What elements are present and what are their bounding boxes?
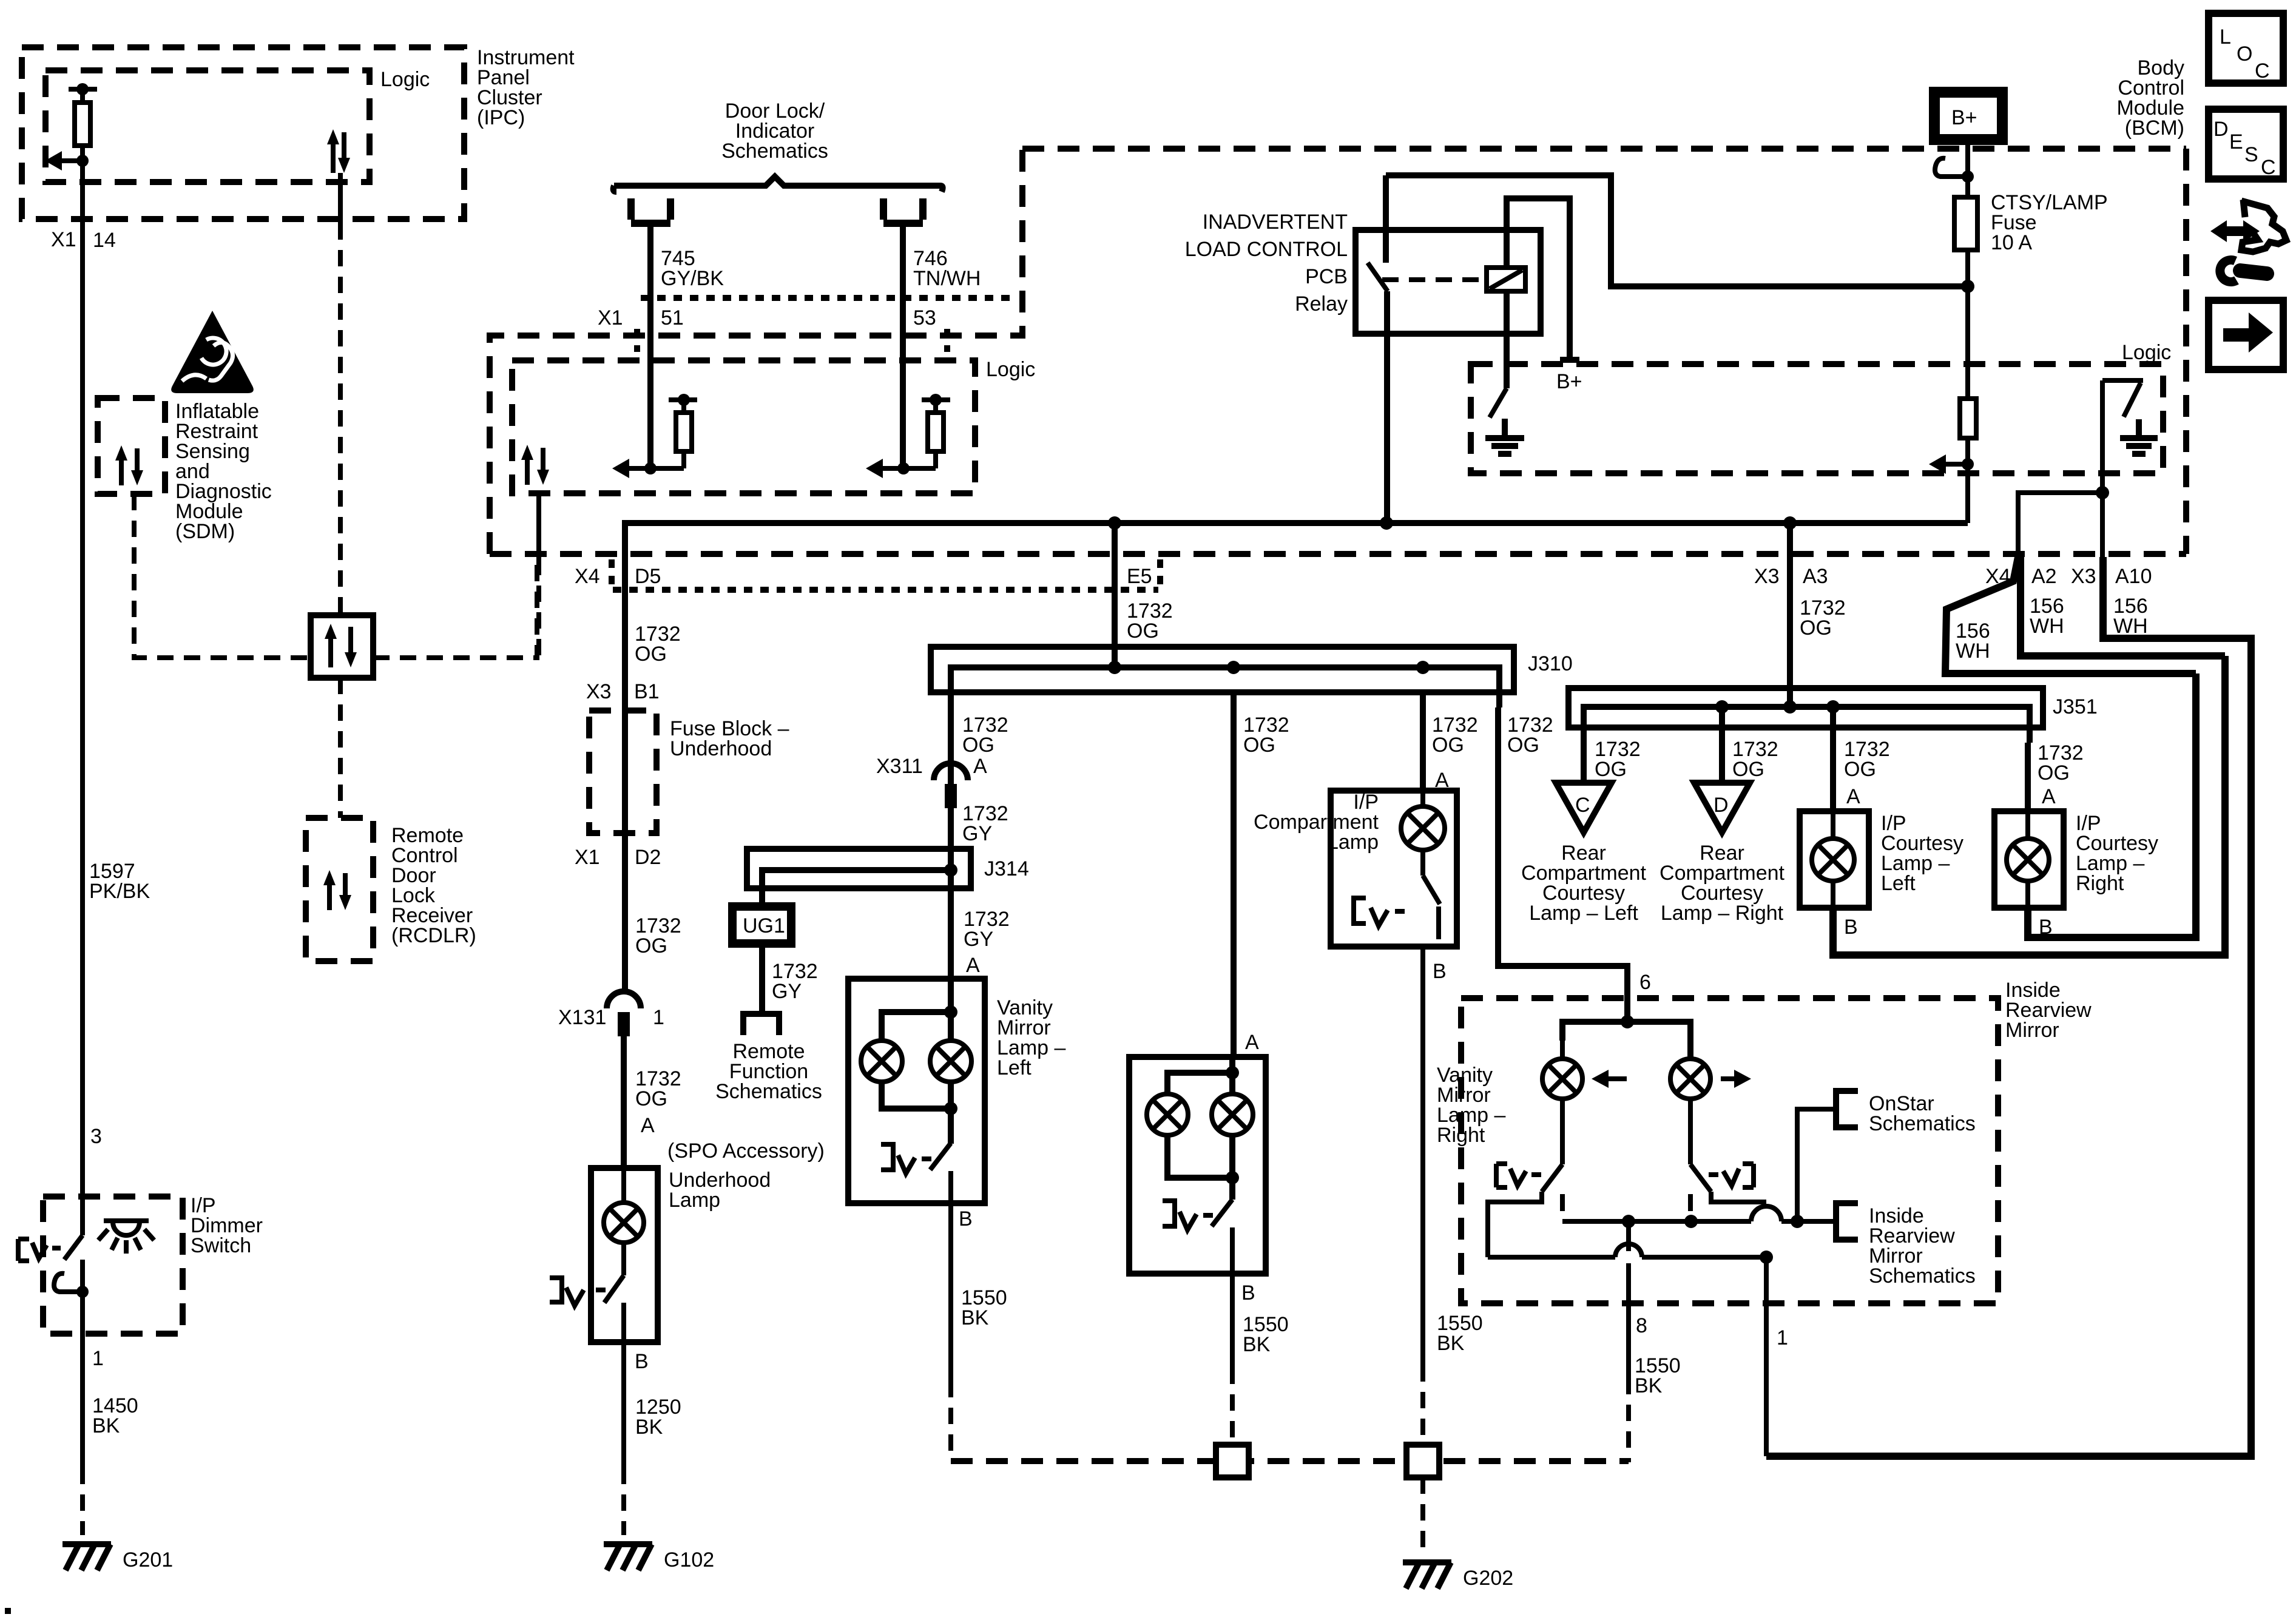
dimmer lamp glyph [98,1221,154,1254]
svg-text:X1: X1 [598,306,623,329]
wire courtesy right B to 156 riser [2028,673,2196,937]
svg-text:X4: X4 [575,565,600,588]
svg-text:(RCDLR): (RCDLR) [391,924,476,947]
wire 1250 BK [621,1342,626,1468]
svg-text:B+: B+ [1951,106,1977,129]
svg-text:B: B [959,1207,973,1230]
wire 156 WH from A2 pin straight [2021,557,2225,656]
connector terminal 746 [883,198,923,223]
wire gateway down to RCDLR dashed [338,678,343,818]
wire to OnStar fork [1797,1109,1836,1221]
off-page fork OnStar [1836,1091,1858,1127]
dimmer clip node [54,1260,89,1334]
svg-text:OG: OG [1732,758,1764,781]
svg-text:J314: J314 [984,857,1029,880]
svg-text:Schematics: Schematics [1869,1112,1976,1135]
junction dot J351 left drop [1715,700,1729,714]
wire J310 drop to IP compartment lamp [1420,692,1426,791]
underhood lamp switch [550,1168,624,1342]
wire 1450 BK dashed to ground [80,1468,85,1535]
vanity left bottom node [882,1082,957,1144]
svg-text:WH: WH [2113,615,2148,638]
svg-text:OG: OG [1127,619,1159,643]
wire A3 drop to J351 [1787,523,1793,707]
IPC Logic inner dashed box [46,70,370,182]
IP courtesy lamp right bulb [2007,811,2049,908]
vanity right internal top node [1167,1057,1239,1094]
svg-text:B: B [635,1350,649,1373]
wire 156 WH from A10 pin [1766,557,2251,1456]
vanity mirror left box [848,979,985,1203]
svg-text:OG: OG [1800,616,1832,640]
svg-text:Logic: Logic [2122,341,2171,364]
wire door lock logic to module row [536,493,541,559]
underhood lamp box [591,1168,658,1342]
svg-text:B: B [1844,916,1858,939]
B+ pin tick [1560,357,1579,363]
vanity left internal top node [882,979,957,1041]
svg-text:D: D [1714,794,1729,817]
pin tick X4/D5 [609,559,615,585]
wire 746 TN/WH [900,223,906,468]
svg-text:Right: Right [2076,872,2124,895]
ground G202 [1403,1562,1451,1588]
vanity right bottom node [1167,1135,1239,1200]
svg-text:A: A [2042,785,2056,808]
svg-text:D: D [2213,118,2229,141]
icon arrow box [2209,300,2283,370]
svg-text:WH: WH [1956,640,1990,663]
wire courtesy left B to 156 riser [1833,656,2225,955]
svg-text:B: B [1433,960,1447,983]
wire 156 WH jog from X4 A2 pin [1945,557,2196,673]
wire vanity left 1550 BK [948,1203,953,1381]
door lock / BCM combined module dashed outline [490,149,1022,554]
svg-text:(SPO Accessory): (SPO Accessory) [667,1139,825,1163]
svg-text:Logic: Logic [986,358,1035,381]
IP courtesy lamp right box [1994,811,2064,908]
svg-text:X131: X131 [558,1006,606,1029]
svg-text:(IPC): (IPC) [477,106,525,129]
svg-text:E5: E5 [1127,565,1152,588]
svg-text:UG1: UG1 [743,914,785,937]
splice square (vanity right) [1216,1445,1249,1477]
svg-text:INADVERTENT: INADVERTENT [1203,211,1348,234]
wire J310 drop to X311 [948,692,954,991]
svg-text:B+: B+ [1556,370,1582,393]
svg-text:Lamp – Right: Lamp – Right [1661,902,1784,925]
svg-text:A: A [973,755,987,778]
clip symbol at B+ wire [1935,158,1974,183]
junction dot J351 A3 feed [1783,700,1797,714]
dimmer switch blade [18,1197,83,1261]
wire B+ to fuse [1965,140,1970,197]
svg-text:Lamp: Lamp [1327,831,1379,854]
wire square to G202 ground [1420,1477,1425,1553]
svg-text:GY: GY [964,928,993,951]
Inside Rearview Mirror dashed box [1461,998,1998,1303]
wire 1597 PK/BK down to dimmer [80,219,85,1197]
svg-text:Mirror: Mirror [2005,1019,2059,1042]
svg-text:C: C [2255,59,2270,83]
svg-text:B: B [1241,1281,1255,1305]
svg-text:51: 51 [661,306,684,329]
wire 745 GY/BK [647,223,653,468]
svg-text:53: 53 [913,306,936,329]
svg-text:WH: WH [2030,615,2064,638]
junction dot A3 feed [1783,516,1797,530]
svg-text:A: A [1245,1031,1259,1054]
Remote Control Door Lock Receiver (RCDLR) dashed box [306,818,373,961]
IP courtesy lamp left box [1800,811,1869,908]
splice square (compartment lamp) [1406,1445,1439,1477]
mirror lower ground bus [1488,1244,1773,1264]
svg-text:10 A: 10 A [1991,231,2032,254]
splice pack J314 outline [747,849,971,888]
Body Control Module (BCM) outer dashed box edges [1022,146,2186,152]
svg-text:1: 1 [1777,1326,1788,1349]
svg-text:OG: OG [1595,758,1627,781]
svg-text:S: S [2244,143,2258,166]
fuse UG1 box [732,906,791,944]
svg-text:OG: OG [1844,758,1876,781]
mirror internal bus to forks [1562,1206,1836,1228]
wire SDM serial data dashed [134,494,311,658]
svg-text:G202: G202 [1463,1567,1513,1590]
page period mark [5,1608,11,1614]
svg-text:Logic: Logic [380,68,430,91]
vanity left bulb 1 [861,1041,902,1082]
wire mirror pin 1 [1764,1257,1769,1456]
vanity mirror right box [1129,1057,1266,1274]
G202 dashed ground bus [951,1458,1629,1464]
svg-text:Lamp: Lamp [669,1189,720,1212]
svg-text:OG: OG [2038,761,2070,785]
wire relay common to fuse node [1386,175,1968,286]
svg-text:OG: OG [1507,734,1539,757]
wire J314 through to vanity left [948,870,954,979]
wire UG1 to remote function fork [759,944,765,1014]
wire BCM switch to A2/A10 node [2100,380,2105,557]
wire pin 8 dashed to G202 bus [1626,1378,1631,1462]
vanity right bulb 1 [1147,1094,1188,1135]
mirror map lamp left bulb [1542,1041,1582,1099]
inline connector X311 [934,763,968,808]
mirror right switch [1690,1099,1766,1211]
svg-text:BK: BK [1437,1332,1465,1355]
right arrow pointer [1721,1070,1751,1088]
module interface row long dashed line [490,551,2186,557]
svg-text:O: O [2237,42,2252,66]
wire relay coil to B+ pin [1507,198,1570,360]
svg-text:X1: X1 [575,846,600,869]
junction dot relay output [1380,516,1393,530]
wire vanity right dashed to G202 square [1230,1368,1235,1446]
svg-text:Schematics: Schematics [1869,1264,1976,1288]
icon LOC box [2209,13,2283,83]
svg-text:A: A [641,1114,655,1137]
svg-text:OG: OG [962,734,994,757]
I/P Dimmer Switch dashed box [43,1197,183,1334]
svg-text:Lamp – Left: Lamp – Left [1529,902,1638,925]
svg-text:J351: J351 [2053,695,2098,718]
svg-text:E: E [2229,130,2243,154]
wire relay coil low side to driver switch [1504,291,1510,388]
pull-up resistor (door lock left) [612,394,697,478]
wire vanity left dashed to G202 bus [948,1381,953,1461]
icon wrench [2220,260,2267,282]
svg-text:BK: BK [635,1416,663,1439]
relay coil [1487,268,1525,291]
junction dot E5 feed [1108,516,1121,530]
Instrument Panel Cluster (IPC) outer dashed box [22,47,464,219]
junction dot J314 [944,863,957,877]
wire J351 drop to triangle C [1581,727,1587,783]
svg-text:(BCM): (BCM) [2125,116,2184,140]
wire vanity right 1550 BK [1230,1274,1235,1368]
svg-text:BK: BK [1243,1333,1271,1356]
wire 1450 BK [80,1334,85,1468]
BCM Logic dashed box [1471,364,2163,473]
icon DESC box [2209,109,2283,179]
connector terminal 745 [631,198,670,223]
pin tick E5 [1157,559,1163,585]
mirror left switch [1488,1099,1562,1257]
splice pack J310 outline [931,647,1514,692]
connector X1 row dotted line [641,295,1010,301]
J314 internal bus with drop to UG1 [762,870,951,906]
wire 1250 BK dashed to ground [621,1468,626,1535]
brace over door lock wires [613,177,943,192]
wire X311 to J314 [948,808,954,869]
svg-text:A3: A3 [1803,565,1828,588]
BCM internal node with left arrow [1929,438,1974,474]
SDM serial data arrows [115,445,143,485]
wire fuse down through logic box [1965,250,1970,399]
main feed bus from D5 to BCM [625,523,1968,993]
resistor R-IPC pull-up [69,83,97,161]
door lock serial arrows [521,445,549,485]
IP compartment lamp switch [1354,850,1440,939]
wire J310 drop to vanity right [1231,692,1237,1057]
wire J351 drop to triangle D [1719,707,1725,783]
svg-text:14: 14 [93,229,116,252]
wire J351 drop to IP courtesy lamp left [1830,707,1836,811]
X1 row pin ticks [634,329,640,352]
svg-text:1: 1 [92,1347,104,1370]
underhood lamp bulb [604,1203,644,1243]
relay box [1356,230,1541,334]
svg-text:LOAD CONTROL: LOAD CONTROL [1185,238,1348,261]
svg-text:A: A [966,954,980,977]
J351 internal bus with end drops [1584,707,2030,743]
serial data gateway box [311,615,373,678]
svg-text:GY/BK: GY/BK [661,267,724,290]
relay driver switch to ground [1485,388,1524,454]
Fuse Block - Underhood dashed box [589,711,657,833]
module row dotted segment [613,587,1158,593]
svg-text:BK: BK [1635,1374,1663,1397]
wire node to A2 pin [2018,493,2102,557]
off-page fork Inside Rearview Mirror Schematics [1836,1203,1858,1240]
icon hand with double arrow [2210,200,2286,252]
wire compartment lamp 1550 BK [1420,947,1425,1365]
door lock Logic inner dashed box [512,360,975,493]
svg-text:A: A [1846,785,1860,808]
wire X131 to lamp [621,1036,627,1168]
IP compartment lamp bulb [1401,791,1445,850]
vanity left switch [881,1143,951,1203]
J310 internal bus with end drops [951,667,1499,707]
svg-text:C: C [2261,156,2276,179]
svg-text:TN/WH: TN/WH [913,267,981,290]
mirror feed node [1562,1015,1690,1059]
svg-text:B1: B1 [634,680,660,703]
svg-text:1: 1 [653,1006,664,1029]
wire E5 drop to J310 [1112,523,1118,667]
svg-text:Left: Left [997,1056,1032,1079]
svg-text:A10: A10 [2115,565,2152,588]
junction dot J310 drop compartment lamp [1416,661,1430,674]
pull-up resistor (door lock right) [866,394,950,478]
svg-text:C: C [1575,794,1590,817]
vanity left bulb 2 [930,1041,971,1082]
svg-text:X3: X3 [586,680,612,703]
wire BCM node to bus [1965,464,1970,523]
svg-text:OG: OG [635,934,667,957]
vanity right bulb 2 [1212,1094,1253,1135]
serial data up/down arrows (IPC) [327,129,350,173]
junction dot J310 feed [1108,661,1121,674]
airbag caution triangle [171,311,254,393]
svg-text:Relay: Relay [1295,292,1348,316]
svg-text:8: 8 [1636,1314,1647,1337]
svg-text:D2: D2 [635,846,661,869]
left arrow pointer [1592,1070,1627,1088]
off-page triangle C [1556,783,1612,832]
svg-text:A2: A2 [2031,565,2057,588]
wire 1597 inside IPC down [80,161,85,219]
svg-text:3: 3 [90,1125,102,1148]
off-page triangle D [1694,783,1750,832]
vanity right switch [1163,1200,1232,1274]
gateway box arrows [325,624,357,667]
svg-text:X3: X3 [2071,565,2096,588]
svg-text:X3: X3 [1754,565,1780,588]
svg-text:BK: BK [961,1306,989,1329]
svg-text:L: L [2220,25,2231,49]
RCDLR serial data arrows [323,870,351,910]
svg-text:D5: D5 [635,565,661,588]
wire compartment lamp dashed to square [1420,1365,1425,1446]
wire serial data dashed IPC to gateway box [338,223,343,615]
svg-text:(SDM): (SDM) [175,520,235,543]
svg-text:PK/BK: PK/BK [89,880,150,903]
junction dot J351 courtesy left drop [1826,700,1840,714]
junction dot fuse-relay [1961,280,1974,293]
svg-text:Schematics: Schematics [721,140,828,163]
BCM internal resistor [1960,399,1976,438]
ground G201 [62,1544,111,1570]
svg-text:Left: Left [1881,872,1916,895]
svg-text:X1: X1 [51,228,76,251]
svg-text:Switch: Switch [191,1234,251,1257]
wire gateway to door lock module dashed [373,554,537,658]
ground G102 [604,1544,652,1570]
svg-text:BK: BK [92,1414,120,1437]
svg-text:Underhood: Underhood [670,737,772,760]
relay actuation dashed link [1382,277,1484,282]
splice pack J351 outline [1568,688,2043,727]
wire J310 right drop to mirror 6 [1498,707,1627,1022]
fuse CTSY/LAMP 10A [1954,197,1977,250]
node IPC logic input with left arrow [45,151,89,170]
IP compartment lamp box [1331,791,1457,947]
relay switch [1368,175,1388,523]
mirror map lamp right bulb [1670,1059,1710,1099]
svg-text:PCB: PCB [1305,265,1348,288]
svg-text:GY: GY [962,822,992,845]
svg-text:6: 6 [1639,971,1651,994]
svg-text:X311: X311 [876,755,923,778]
wire J314 drop to UG1 [759,888,765,906]
svg-text:OG: OG [635,643,667,666]
svg-text:OG: OG [1243,734,1275,757]
wire J351 right drop to IP courtesy lamp right [2025,743,2031,811]
inline connector X131 [607,991,641,1036]
Inflatable Restraint Sensing and Diagnostic Module (SDM) dashed box [98,398,165,494]
off-page fork Remote Function [743,1014,779,1035]
battery B+ box [1934,92,2002,140]
svg-text:G102: G102 [664,1548,714,1571]
svg-text:G201: G201 [123,1548,173,1571]
svg-text:GY: GY [772,980,802,1003]
svg-text:OG: OG [635,1087,667,1110]
BCM ground switch [2102,380,2158,454]
junction dot J310 drop vanity right [1227,661,1240,674]
svg-text:J310: J310 [1528,652,1573,675]
svg-text:OG: OG [1432,734,1464,757]
svg-text:Schematics: Schematics [715,1080,822,1103]
wire mirror pin 8 [1626,1221,1631,1251]
wire serial data IPC to below [338,173,343,223]
IP courtesy lamp left bulb [1812,811,1854,908]
